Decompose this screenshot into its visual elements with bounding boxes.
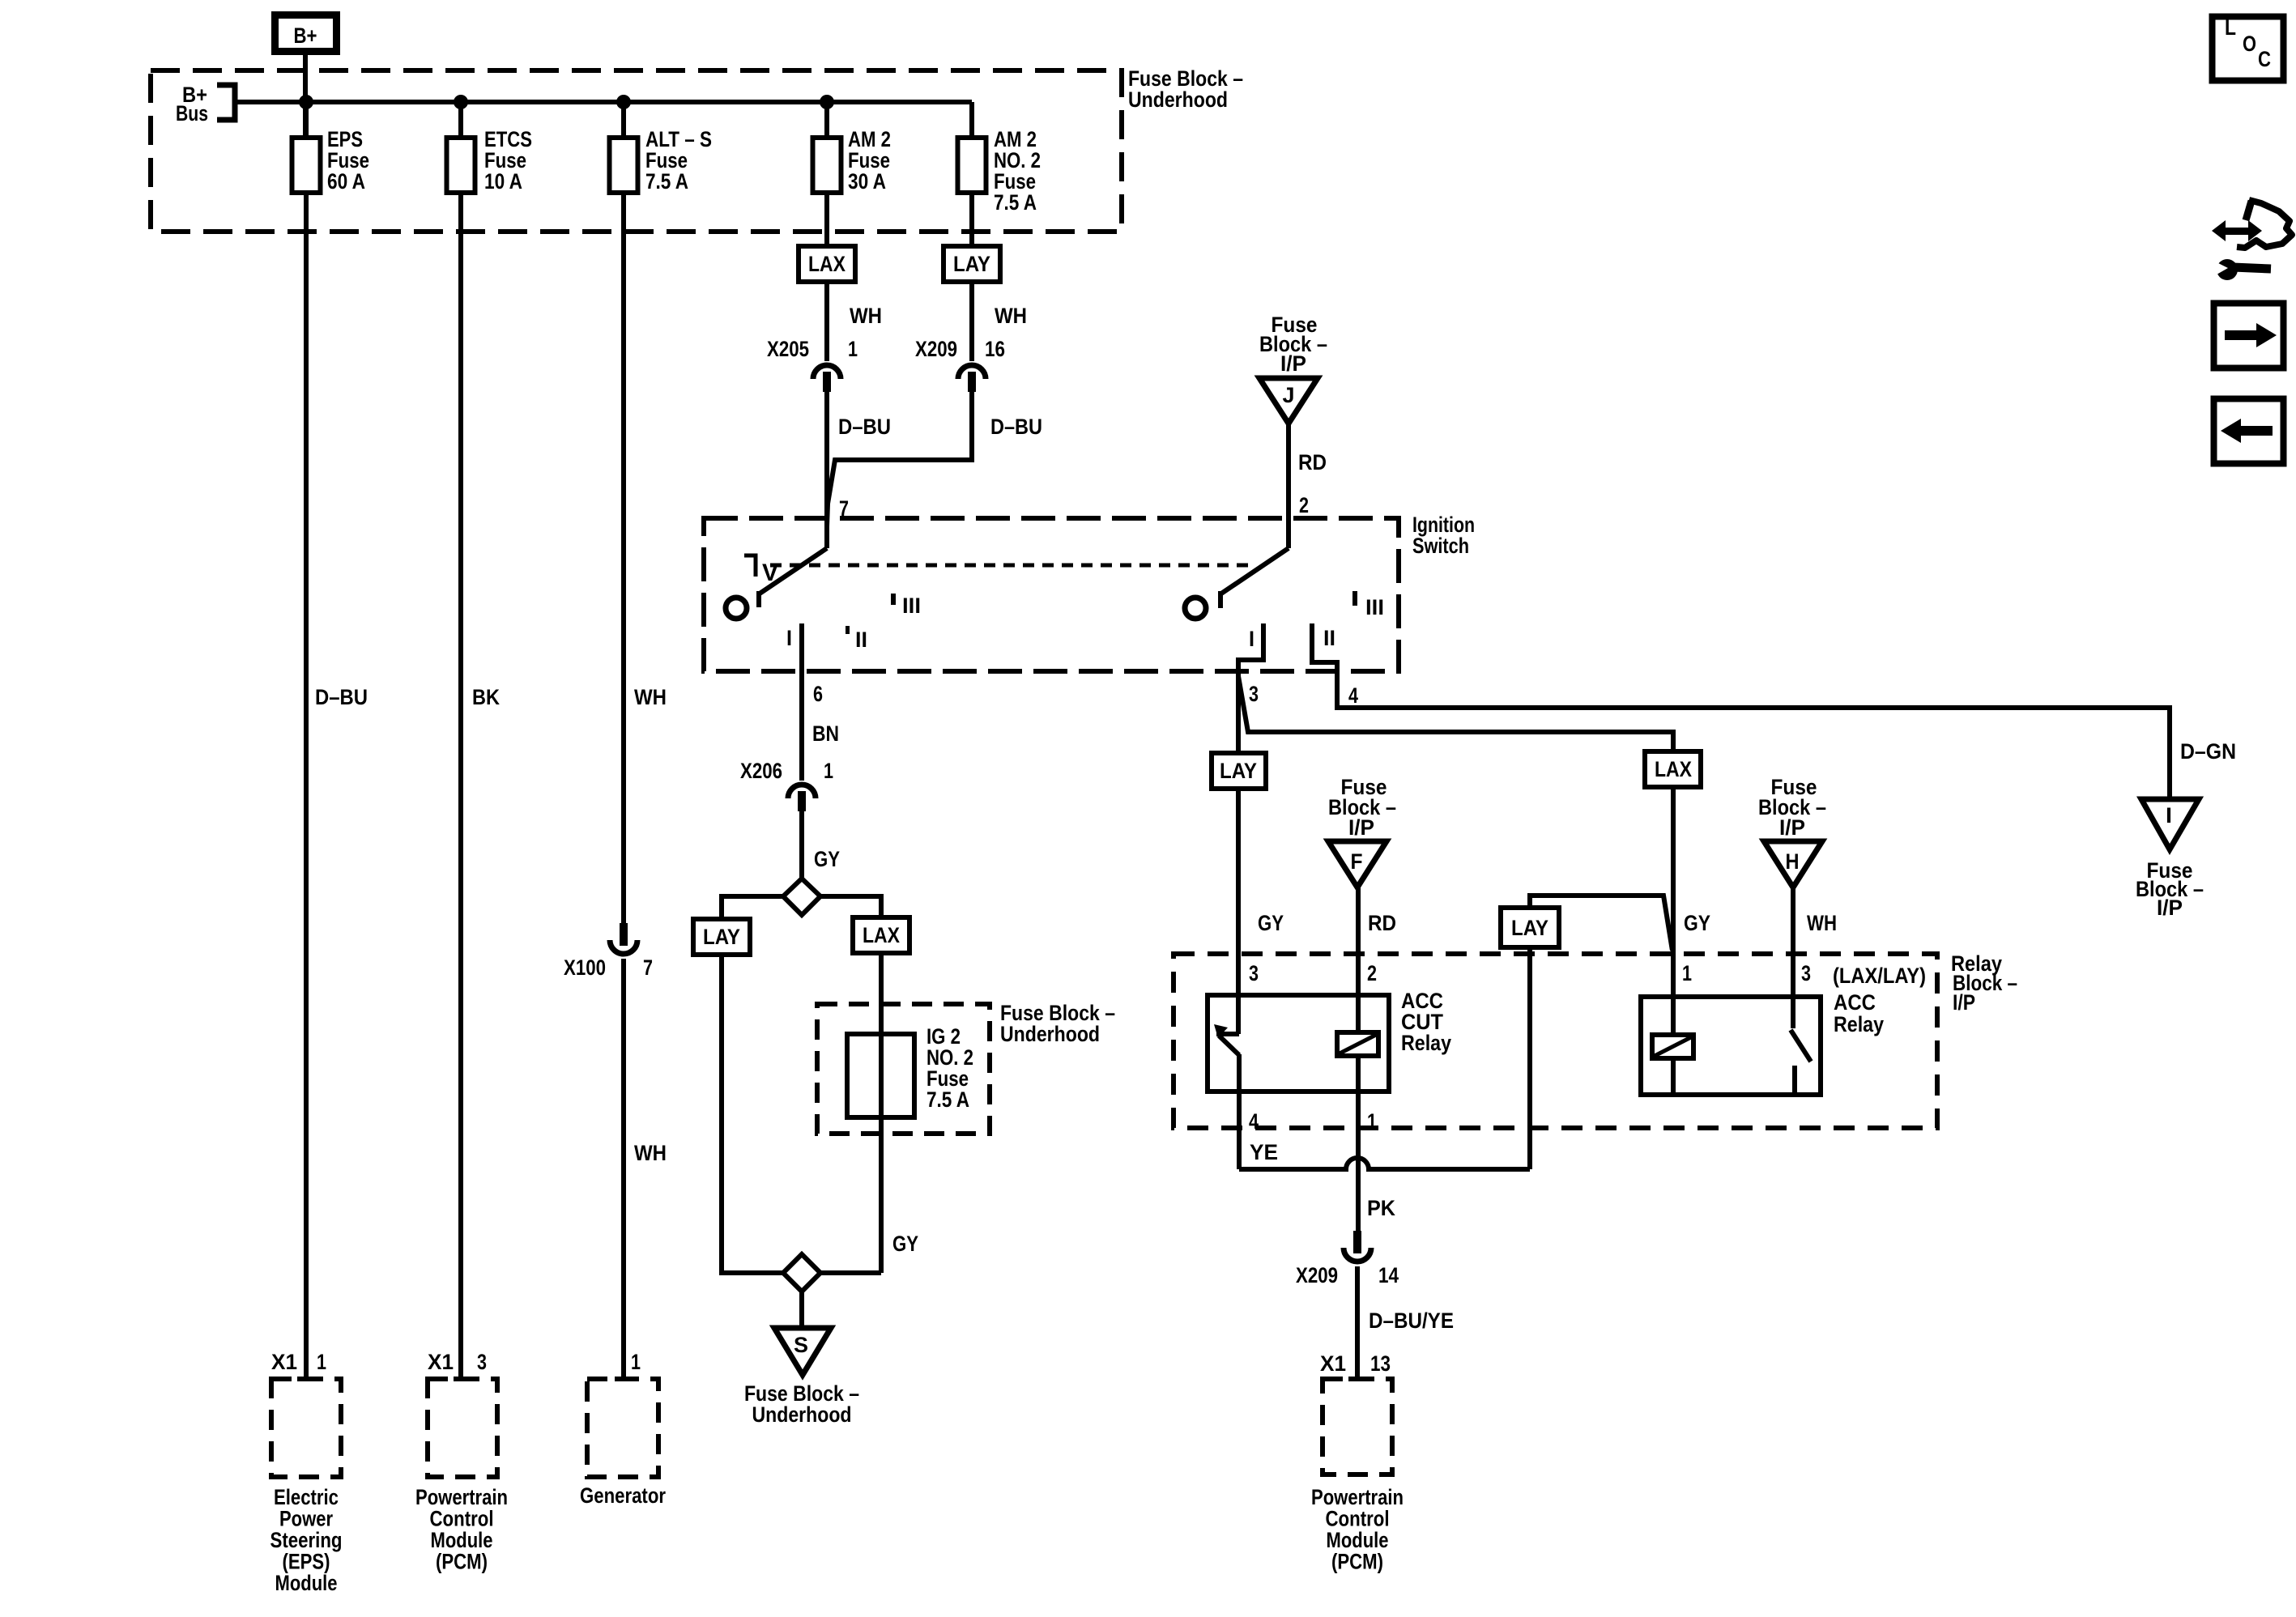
- icon arrow right: [2225, 323, 2277, 347]
- svg-text:WH: WH: [995, 304, 1027, 328]
- svg-text:LAY: LAY: [1220, 759, 1257, 783]
- connector triangle J fuse block IP: [1259, 378, 1318, 423]
- svg-text:(EPS): (EPS): [283, 1550, 330, 1574]
- svg-text:10 A: 10 A: [484, 169, 522, 194]
- net box LAX am2: [799, 246, 855, 282]
- svg-text:X205: X205: [767, 337, 809, 361]
- svg-text:2: 2: [1299, 493, 1309, 517]
- wire bus to fuse EPS: [304, 102, 309, 138]
- svg-text:Power: Power: [279, 1507, 333, 1531]
- junction dot ALT-S: [616, 95, 631, 109]
- wire ACC coil to box bottom: [1671, 1058, 1676, 1095]
- svg-text:WH: WH: [850, 304, 882, 328]
- svg-text:13: 13: [1370, 1351, 1391, 1376]
- connector triangle F fuse block IP: [1328, 841, 1387, 887]
- svg-text:3: 3: [1249, 682, 1259, 706]
- svg-text:Bus: Bus: [176, 101, 208, 126]
- wire X100 to generator (WH): [621, 959, 626, 1377]
- svg-text:RD: RD: [1298, 450, 1327, 474]
- svg-text:4: 4: [1249, 1109, 1259, 1134]
- net box LAY mid-left: [693, 919, 750, 955]
- icon wrench: [2217, 259, 2238, 280]
- svg-text:III: III: [1365, 595, 1384, 619]
- svg-text:D–BU: D–BU: [990, 415, 1042, 439]
- terminal I left / wire pin 6 (BN): [799, 623, 804, 781]
- svg-text:D–BU/YE: D–BU/YE: [1369, 1308, 1454, 1333]
- wire LAX mid to IG2 fuse: [879, 953, 884, 1273]
- terminal tick generator: [615, 1377, 633, 1381]
- svg-text:I/P: I/P: [1953, 990, 1975, 1015]
- terminal I right / pin 3 jog: [1238, 623, 1263, 753]
- connector X100 pin 7: [620, 923, 628, 946]
- node B+ Bus bracket: [217, 85, 235, 120]
- wire J to ignition pin 2 (RD): [1286, 423, 1291, 548]
- svg-text:Module: Module: [275, 1571, 338, 1595]
- fuse block underhood dashed box: [151, 70, 1122, 232]
- svg-text:X209: X209: [915, 337, 957, 361]
- ignition switch dashed box: [704, 518, 1399, 671]
- switch arm right (pin 2): [1221, 548, 1289, 594]
- svg-text:Relay: Relay: [1401, 1031, 1451, 1055]
- svg-text:LAY: LAY: [953, 252, 990, 276]
- svg-text:Powertrain: Powertrain: [415, 1485, 508, 1509]
- svg-text:GY: GY: [1258, 911, 1284, 935]
- svg-text:(LAX/LAY): (LAX/LAY): [1833, 964, 1926, 988]
- icon LOC box: [2213, 17, 2284, 81]
- wire ALT-S fuse to X100 (WH): [621, 193, 626, 924]
- svg-text:LAY: LAY: [1511, 916, 1548, 940]
- B+ power feed box: [275, 15, 337, 52]
- svg-text:F: F: [1351, 849, 1363, 874]
- wire bus to fuse AM2 NO.2: [969, 102, 974, 138]
- svg-text:1: 1: [1367, 1109, 1377, 1134]
- svg-text:I: I: [2166, 803, 2172, 828]
- relay block IP dashed box: [1174, 954, 1937, 1128]
- icon arrow right box: [2214, 304, 2284, 368]
- contact circle right: [1185, 598, 1206, 619]
- wire bus to fuse ALT-S: [621, 102, 626, 138]
- svg-text:I: I: [1249, 627, 1254, 651]
- relay ACC box: [1641, 997, 1821, 1095]
- linkage dotted line: [770, 564, 1249, 568]
- svg-text:WH: WH: [634, 685, 667, 709]
- svg-text:7.5 A: 7.5 A: [645, 169, 688, 194]
- position marker III left: [891, 594, 896, 605]
- junction dot EPS: [299, 95, 313, 109]
- connector triangle H fuse block IP: [1764, 841, 1822, 887]
- connector X209 pin 16: [958, 365, 986, 379]
- connector X205 pin 1: [813, 365, 841, 379]
- terminal tick PCM left: [454, 1377, 471, 1381]
- svg-text:30 A: 30 A: [848, 169, 886, 194]
- terminal II right / pin 4 jog: [1312, 623, 2170, 799]
- icon double arrow: [2212, 220, 2262, 241]
- svg-text:Module: Module: [431, 1528, 493, 1552]
- svg-text:Switch: Switch: [1412, 534, 1469, 558]
- connector X206 pin 1: [788, 785, 816, 798]
- wire diamond1 right to LAX: [820, 896, 881, 917]
- wire LAY to X209 (WH): [969, 282, 974, 361]
- svg-text:D–BU: D–BU: [838, 415, 891, 439]
- svg-text:BK: BK: [472, 685, 500, 709]
- fuse IG 2 NO. 2: [847, 1034, 914, 1117]
- wire X209-14 to PCM (D-BU/YE): [1355, 1266, 1360, 1377]
- wire LAY pin3 to ACC CUT relay pin 3 (GY): [1236, 789, 1241, 1034]
- svg-text:7: 7: [643, 955, 653, 980]
- svg-text:RD: RD: [1368, 911, 1396, 935]
- wire YE with hop: [1239, 1158, 1530, 1169]
- icon diagnostic arrow outline: [2246, 201, 2251, 220]
- wire diamond2 to S triangle: [799, 1291, 804, 1328]
- net box LAY pin3: [1212, 753, 1266, 789]
- svg-text:D–BU: D–BU: [315, 685, 368, 709]
- wire bus to fuse AM2: [824, 102, 829, 138]
- wire bus to fuse ETCS: [458, 102, 463, 138]
- fuse ALT-S: [610, 138, 638, 193]
- svg-text:II: II: [1323, 626, 1335, 650]
- terminal tick PCM right: [1348, 1377, 1366, 1381]
- component generator dashed box: [587, 1379, 658, 1477]
- svg-text:PK: PK: [1367, 1196, 1395, 1220]
- svg-text:Steering: Steering: [270, 1528, 343, 1552]
- svg-text:X209: X209: [1296, 1263, 1338, 1287]
- wire pin3-branch LAX right: [1645, 751, 1701, 787]
- svg-text:J: J: [1283, 383, 1295, 407]
- svg-text:Control: Control: [430, 1507, 494, 1531]
- svg-text:WH: WH: [1807, 911, 1837, 935]
- svg-text:(PCM): (PCM): [436, 1550, 488, 1574]
- splice diamond 1: [783, 879, 820, 915]
- wire X209-16 to junction (D-BU): [827, 392, 972, 526]
- ACC CUT switch arm: [1219, 1036, 1239, 1055]
- svg-text:X1: X1: [1320, 1351, 1346, 1376]
- wire F to ACC CUT relay pin 2 (RD): [1356, 887, 1361, 1032]
- net box LAX mid: [853, 917, 909, 953]
- wire LAX right to ACC relay pin 1 (GY): [1671, 787, 1676, 1035]
- component EPS module dashed box: [271, 1379, 341, 1477]
- terminal tick EPS module: [297, 1377, 315, 1381]
- svg-text:GY: GY: [1684, 911, 1710, 935]
- svg-text:LAX: LAX: [808, 252, 846, 276]
- svg-text:LAX: LAX: [863, 923, 900, 947]
- net box LAY am2no2: [944, 246, 1000, 282]
- svg-text:3: 3: [1801, 961, 1811, 985]
- svg-text:H: H: [1786, 849, 1800, 874]
- connector triangle I fuse block IP right: [2141, 799, 2199, 849]
- svg-text:LAX: LAX: [1655, 757, 1692, 781]
- svg-text:16: 16: [985, 337, 1005, 361]
- wire ig2 to diamond2: [820, 1270, 881, 1275]
- svg-text:1: 1: [848, 337, 858, 361]
- svg-text:1: 1: [631, 1350, 641, 1374]
- svg-text:X206: X206: [740, 759, 782, 783]
- svg-text:Module: Module: [1327, 1528, 1389, 1552]
- position marker III right: [1352, 591, 1357, 606]
- splice diamond 2: [783, 1254, 820, 1291]
- ACC CUT switch fixed contact: [1216, 1032, 1239, 1036]
- ACC relay switch bottom stub: [1792, 1066, 1797, 1095]
- net box LAY right: [1501, 908, 1559, 947]
- wire LAY mid-left down: [722, 955, 783, 1273]
- svg-text:C: C: [2258, 47, 2271, 71]
- svg-text:1: 1: [317, 1350, 326, 1374]
- component PCM left dashed box: [428, 1379, 497, 1477]
- svg-text:3: 3: [1249, 961, 1259, 985]
- icon arrow left: [2221, 419, 2273, 443]
- relay ACC CUT box: [1208, 995, 1389, 1091]
- wire AM2NO2 fuse to LAY: [969, 193, 974, 246]
- svg-text:Underhood: Underhood: [1000, 1022, 1100, 1046]
- fuse block underhood IG2 dashed box: [817, 1004, 990, 1134]
- switch arm left (pin 7): [760, 548, 827, 594]
- ACC relay coil: [1652, 1035, 1693, 1058]
- wire EPS fuse to EPS module (D-BU): [304, 193, 309, 1377]
- wire LAY right to LAX node: [1530, 896, 1672, 951]
- fuse EPS: [292, 138, 321, 193]
- connector X209 pin 14: [1353, 1231, 1361, 1253]
- icon arrow left box: [2214, 399, 2284, 464]
- contact stub left: [756, 591, 761, 607]
- svg-text:I/P: I/P: [1779, 815, 1805, 840]
- svg-text:III: III: [902, 594, 921, 618]
- wire riser YE to LAY right: [1527, 947, 1532, 1169]
- branch pin3 to LAX slant: [1238, 676, 1673, 751]
- svg-text:S: S: [794, 1333, 808, 1357]
- svg-text:X100: X100: [564, 955, 606, 980]
- svg-text:Electric: Electric: [274, 1485, 339, 1509]
- fuse ETCS: [447, 138, 475, 193]
- svg-text:BN: BN: [812, 721, 839, 746]
- svg-text:Generator: Generator: [580, 1483, 666, 1508]
- wire B+ box drop: [303, 51, 308, 138]
- svg-text:V: V: [762, 560, 778, 586]
- ACC CUT switch arrowhead: [1214, 1024, 1228, 1038]
- wire diamond1 left to LAY: [722, 896, 783, 919]
- svg-text:X1: X1: [271, 1350, 297, 1374]
- wire AM2 fuse to LAX: [824, 193, 829, 246]
- position marker II left: [846, 626, 850, 634]
- svg-text:I/P: I/P: [1348, 815, 1374, 840]
- fuse AM2 NO.2: [958, 138, 986, 193]
- svg-text:6: 6: [813, 682, 823, 706]
- svg-text:4: 4: [1348, 683, 1358, 708]
- wire LAX to X205 (WH): [824, 282, 829, 361]
- svg-text:L: L: [2225, 15, 2236, 40]
- wire B+ bus horizontal: [235, 100, 972, 104]
- wire coil to pin 1 (PK): [1356, 1056, 1361, 1231]
- svg-text:7.5 A: 7.5 A: [926, 1087, 969, 1112]
- svg-text:Underhood: Underhood: [752, 1402, 852, 1427]
- svg-text:ACC: ACC: [1834, 990, 1876, 1015]
- svg-text:GY: GY: [814, 847, 840, 871]
- junction dot ETCS: [454, 95, 468, 109]
- ACC CUT relay coil: [1337, 1032, 1378, 1056]
- svg-text:Control: Control: [1326, 1507, 1390, 1531]
- position tick IV: [744, 555, 756, 577]
- svg-text:X1: X1: [428, 1350, 454, 1374]
- svg-text:I/P: I/P: [1280, 351, 1306, 376]
- svg-text:Underhood: Underhood: [1128, 87, 1228, 112]
- svg-text:Powertrain: Powertrain: [1311, 1485, 1404, 1509]
- svg-text:7.5 A: 7.5 A: [994, 190, 1037, 215]
- wire X206 to splice diamond (GY): [799, 811, 804, 879]
- svg-text:(PCM): (PCM): [1331, 1550, 1383, 1574]
- svg-text:B+: B+: [294, 23, 317, 48]
- ACC relay switch arm: [1791, 1030, 1811, 1062]
- svg-text:I/P: I/P: [2157, 896, 2183, 920]
- svg-text:II: II: [855, 628, 867, 652]
- svg-text:2: 2: [1367, 961, 1377, 985]
- wire H to ACC relay pin 3 (WH): [1791, 887, 1795, 1028]
- svg-text:I: I: [786, 626, 792, 650]
- component PCM right dashed box: [1323, 1379, 1392, 1474]
- svg-text:1: 1: [824, 759, 833, 783]
- wire ETCS fuse to PCM (BK): [458, 193, 463, 1377]
- svg-text:O: O: [2243, 32, 2256, 56]
- svg-text:Relay: Relay: [1834, 1012, 1884, 1036]
- svg-text:D–GN: D–GN: [2180, 739, 2236, 764]
- connector triangle S fuse block underhood: [774, 1328, 831, 1375]
- junction dot AM2: [820, 95, 834, 109]
- svg-text:YE: YE: [1250, 1140, 1278, 1164]
- contact stub right: [1218, 591, 1223, 608]
- svg-text:1: 1: [1682, 961, 1692, 985]
- wire ACC CUT pin4 to YE: [1237, 1054, 1242, 1169]
- svg-text:LAY: LAY: [703, 925, 740, 949]
- svg-text:60 A: 60 A: [327, 169, 365, 194]
- contact circle left: [726, 598, 747, 619]
- svg-text:WH: WH: [634, 1141, 667, 1165]
- svg-text:14: 14: [1378, 1263, 1399, 1287]
- svg-text:GY: GY: [892, 1232, 918, 1256]
- svg-text:3: 3: [477, 1350, 487, 1374]
- wire X205 to ignition pin 7 (D-BU): [824, 392, 829, 548]
- fuse AM2: [813, 138, 841, 193]
